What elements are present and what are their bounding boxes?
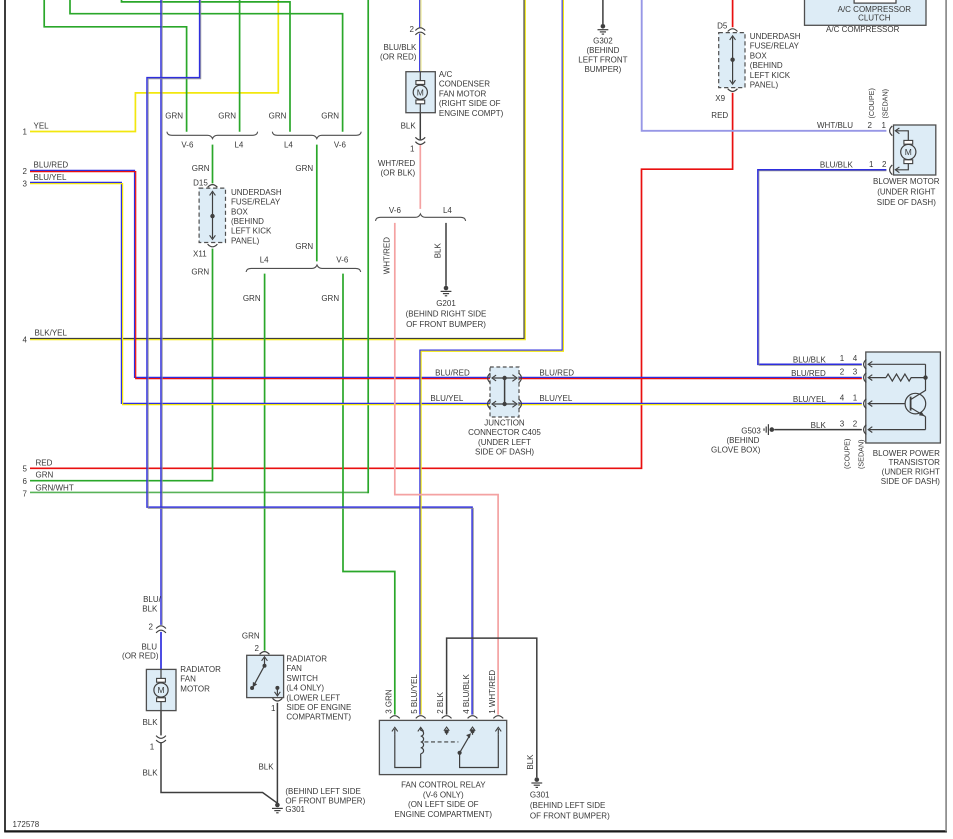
svg-text:V-6: V-6 <box>389 206 402 215</box>
svg-text:GRN: GRN <box>242 632 260 641</box>
wire BLU/BLK from top edge down to radiator fan motor connector 2 (blue band) <box>160 0 162 625</box>
junction connector C405 (dashed box) <box>490 367 519 417</box>
wire GRN top entry B to V-6 leg of second brace <box>70 0 343 132</box>
svg-text:(OR RED): (OR RED) <box>380 53 417 62</box>
blower power transistor Q1 (box) <box>866 352 941 443</box>
svg-text:GRN: GRN <box>269 111 287 120</box>
svg-text:JUNCTION: JUNCTION <box>484 418 525 427</box>
connector arc at terminal X11 <box>208 244 218 247</box>
svg-text:(SEDAN): (SEDAN) <box>881 89 890 119</box>
wire BLU/BLK from top edge down to radiator fan motor connector 2 (black band) <box>161 0 163 625</box>
svg-text:2: 2 <box>840 367 845 376</box>
svg-text:WHT/RED: WHT/RED <box>383 237 392 275</box>
svg-text:BLU/YEL: BLU/YEL <box>539 394 572 403</box>
wire BLU/RED circuit 2 (blue band): left edge to junction connector C405 to blower power transistor <box>30 170 862 377</box>
relay pin 4 arrow with node dot <box>472 730 474 735</box>
svg-text:UNDERDASH: UNDERDASH <box>231 188 282 197</box>
svg-text:GRN: GRN <box>165 111 183 120</box>
wire RED circuit 5: left edge, up at x=641, right to underdash fuse/relay box X9 <box>30 93 733 469</box>
svg-text:1: 1 <box>23 127 28 136</box>
svg-text:GRN: GRN <box>321 111 339 120</box>
svg-text:BLU/YEL: BLU/YEL <box>34 173 67 182</box>
connector arc left of C405 on BLU/RED <box>488 373 491 383</box>
wire BLU/BLK jog (black band) into fan control relay pin 4 <box>148 0 473 715</box>
svg-text:2: 2 <box>410 25 415 34</box>
svg-text:1: 1 <box>840 354 845 363</box>
transistor Q1 symbol (circle, base bar, collector, emitter with arrow) <box>905 393 926 414</box>
A/C condenser fan motor M1 (box with motor symbol) <box>406 72 435 113</box>
wire BLU/BLK from top edge jog left then down to y=507 (blue band) <box>147 0 472 715</box>
connector arc at switch pin 1 <box>273 698 283 701</box>
clutch coil symbol (partial, cut by page top) <box>854 0 896 3</box>
svg-text:(V-6 ONLY): (V-6 ONLY) <box>423 790 464 799</box>
svg-text:(BEHIND: (BEHIND <box>750 61 783 70</box>
node dot at resistor output <box>923 375 927 379</box>
wire BLK from A/C condenser fan motor down to connector 1 <box>419 113 421 140</box>
inline connector 1 below A/C condenser fan motor (arc pair) <box>415 137 425 140</box>
svg-text:LEFT FRONT: LEFT FRONT <box>578 56 627 65</box>
svg-text:GRN: GRN <box>321 294 339 303</box>
relay wire blade to pin 1 <box>460 735 499 768</box>
svg-text:BLU/: BLU/ <box>143 595 162 604</box>
svg-text:SIDE OF DASH): SIDE OF DASH) <box>881 477 940 486</box>
ground G302 <box>598 24 609 34</box>
transistor pin arrow BLU/RED 2/3 <box>868 375 872 381</box>
svg-text:(COUPE): (COUPE) <box>843 439 852 469</box>
svg-text:GRN: GRN <box>243 294 261 303</box>
wire BLK from connector 1 down then right then diagonal to ground G301 <box>161 743 277 803</box>
relay coil between pins 5 and 3 <box>421 730 424 753</box>
svg-text:3: 3 <box>23 180 28 189</box>
svg-text:BLK: BLK <box>142 718 158 727</box>
wire BLU (OR RED) from connector 2 into radiator fan motor <box>160 632 162 670</box>
wire GRN/WHT circuit 7 vertical run up to top edge <box>367 0 369 493</box>
wire BLU/YEL circuit 3 (yellow band) <box>30 184 862 405</box>
svg-text:BLU/YEL: BLU/YEL <box>430 394 463 403</box>
svg-text:ENGINE COMPT): ENGINE COMPT) <box>439 109 504 118</box>
underdash fuse/relay box D15-X11 (dashed box) <box>199 188 225 242</box>
svg-text:BLU/BLK: BLU/BLK <box>793 356 827 365</box>
relay pin 5 arrow <box>420 728 422 730</box>
svg-text:V-6: V-6 <box>336 256 349 265</box>
connector arc at blower pin 1 <box>890 126 893 136</box>
wire GRN from second brace centre down to lower splitting brace <box>316 145 318 262</box>
svg-text:BLK: BLK <box>433 243 442 259</box>
svg-text:BLOWER MOTOR: BLOWER MOTOR <box>873 177 940 186</box>
inline connector 1 below radiator fan motor (arc pair) <box>156 736 166 739</box>
svg-text:RED: RED <box>36 458 53 467</box>
connector arc right of C405 on BLU/YEL <box>519 399 522 409</box>
svg-text:LEFT KICK: LEFT KICK <box>231 227 272 236</box>
svg-text:A/C COMPRESSOR: A/C COMPRESSOR <box>826 25 900 34</box>
ground G301 right <box>531 777 542 787</box>
svg-text:2: 2 <box>867 121 872 130</box>
svg-text:BLU/YEL: BLU/YEL <box>793 395 826 404</box>
wire GRN/WHT circuit 7 horizontal run (green over white) <box>30 491 368 493</box>
svg-text:2: 2 <box>882 160 887 169</box>
wire BLK from radiator fan motor down to connector 1 <box>160 711 162 736</box>
svg-text:FUSE/RELAY: FUSE/RELAY <box>231 198 281 207</box>
svg-text:BLU/RED: BLU/RED <box>791 369 826 378</box>
radiator fan switch S1 (box) <box>247 655 284 697</box>
svg-text:D5: D5 <box>717 21 728 30</box>
svg-text:4: 4 <box>840 393 845 402</box>
connector arc at terminal D15 <box>208 185 218 188</box>
svg-text:(COUPE): (COUPE) <box>867 88 876 118</box>
svg-text:1: 1 <box>853 393 858 402</box>
svg-text:3: 3 <box>840 419 845 428</box>
junction internal link between dots <box>504 378 506 404</box>
svg-text:M: M <box>157 685 164 695</box>
wire GRN top entry A to V-6 leg of left brace <box>44 0 186 132</box>
connector arcs at relay pins <box>390 716 400 719</box>
svg-text:4: 4 <box>23 335 28 344</box>
inline connector 2 above radiator fan motor (arc pair) <box>156 626 166 629</box>
svg-text:GRN/WHT: GRN/WHT <box>36 483 74 492</box>
svg-text:3: 3 <box>853 367 858 376</box>
svg-text:GRN: GRN <box>36 471 54 480</box>
svg-text:A/C: A/C <box>439 70 453 79</box>
relay pin 1 arrow <box>497 729 499 735</box>
wire BLU/BLK (OR RED) from top edge to connector 2 above A/C condenser fan motor (blue band) <box>419 0 421 28</box>
underdash fuse/relay box D5-X9 (dashed box) <box>719 33 745 88</box>
transistor pin arrow BLU/BLK 1/4 <box>868 361 872 367</box>
svg-text:L4: L4 <box>260 256 269 265</box>
svg-text:CONDENSER: CONDENSER <box>439 80 490 89</box>
svg-text:BLK/YEL: BLK/YEL <box>35 329 68 338</box>
fuse element inside D5 box (line with arrows and node dot) <box>732 37 734 83</box>
ground G301 left <box>272 803 283 813</box>
inline connector 2 above A/C condenser fan motor (arc pair) <box>415 28 425 31</box>
wire WHT/BLU from top edge down then right to blower motor pin 1 <box>642 0 887 131</box>
resistor R1 inside transistor box <box>886 374 926 381</box>
svg-text:(OR BLK): (OR BLK) <box>381 169 416 178</box>
svg-text:2 BLK: 2 BLK <box>436 691 445 713</box>
wire BLK/YEL circuit 4 (yellow band) <box>30 0 525 340</box>
svg-text:FAN CONTROL RELAY: FAN CONTROL RELAY <box>401 781 486 790</box>
svg-text:(L4 ONLY): (L4 ONLY) <box>286 684 324 693</box>
svg-text:SIDE OF DASH): SIDE OF DASH) <box>877 198 936 207</box>
svg-text:2: 2 <box>255 644 260 653</box>
svg-text:FAN: FAN <box>180 675 196 684</box>
svg-text:6: 6 <box>23 477 28 486</box>
svg-text:SIDE OF DASH): SIDE OF DASH) <box>475 448 534 457</box>
svg-text:GLOVE BOX): GLOVE BOX) <box>711 445 761 454</box>
wire BLU/BLK (OR RED) top (pale band) <box>420 0 422 28</box>
svg-text:2: 2 <box>23 167 28 176</box>
svg-text:PANEL): PANEL) <box>750 81 779 90</box>
svg-text:1: 1 <box>869 160 874 169</box>
wire BLU/YEL to relay pin 5 (yellow band) <box>421 0 563 715</box>
svg-text:GRN: GRN <box>295 164 313 173</box>
wire GRN circuit 6: left edge right to X11 output of underdash fuse/relay box <box>30 249 213 481</box>
svg-text:UNDERDASH: UNDERDASH <box>750 32 801 41</box>
junction double arrow on BLU/YEL line with node dot <box>494 403 516 405</box>
svg-text:SIDE OF ENGINE: SIDE OF ENGINE <box>286 703 351 712</box>
svg-text:2: 2 <box>853 419 858 428</box>
brace splitting GRN into L4 and V-6 drops <box>246 265 361 272</box>
svg-text:LEFT KICK: LEFT KICK <box>750 71 791 80</box>
svg-text:OF FRONT BUMPER): OF FRONT BUMPER) <box>530 811 610 820</box>
svg-text:172578: 172578 <box>13 820 40 829</box>
svg-text:BUMPER): BUMPER) <box>584 65 621 74</box>
svg-text:BOX: BOX <box>750 51 768 60</box>
svg-text:(UNDER RIGHT: (UNDER RIGHT <box>877 188 935 197</box>
wire BLK from radiator fan switch pin 1 down to ground G301 <box>276 703 278 803</box>
brace V-6/L4 splitting WHT/RED into engine variants <box>376 214 466 221</box>
svg-text:COMPARTMENT): COMPARTMENT) <box>286 713 351 722</box>
svg-text:1: 1 <box>271 704 276 713</box>
connector arc at terminal D5 <box>728 29 738 32</box>
svg-text:BLU/BLK: BLU/BLK <box>383 43 417 52</box>
wire GRN top entry D to L4 leg of left brace <box>239 0 241 132</box>
relay mechanical link (dashed) <box>424 741 458 743</box>
wire GRN top entry C to L4 leg of second brace <box>122 0 291 132</box>
svg-text:BLU/RED: BLU/RED <box>34 161 69 170</box>
svg-text:G503: G503 <box>741 426 761 435</box>
svg-text:FUSE/RELAY: FUSE/RELAY <box>750 42 800 51</box>
svg-text:BLK: BLK <box>142 769 158 778</box>
svg-text:4 BLU/BLK: 4 BLU/BLK <box>462 674 471 714</box>
svg-text:(BEHIND: (BEHIND <box>231 217 264 226</box>
svg-text:V-6: V-6 <box>334 141 347 150</box>
wire BLU/BLK from blower motor pin 2 left then down then right to blower power transistor pins 1/4 (blue band) <box>758 170 887 364</box>
wire BLU/YEL from top edge down, left at y=351, down to fan control relay pin 5 (blue band) <box>420 0 562 715</box>
svg-text:RADIATOR: RADIATOR <box>286 655 327 664</box>
wire BLK from fan control relay pin 2 up, right, down to ground G301 <box>447 638 537 777</box>
svg-text:BLK: BLK <box>811 421 827 430</box>
svg-text:BLK: BLK <box>401 121 417 130</box>
svg-text:(SEDAN): (SEDAN) <box>857 439 866 469</box>
svg-text:(ON LEFT SIDE OF: (ON LEFT SIDE OF <box>408 800 479 809</box>
svg-text:OF FRONT BUMPER): OF FRONT BUMPER) <box>406 320 486 329</box>
ground G201 <box>441 286 452 296</box>
svg-text:FAN MOTOR: FAN MOTOR <box>439 89 487 98</box>
transistor pin arrow BLU/YEL 4/1 (base) <box>868 401 872 407</box>
wire BLK from top edge down to ground G302 <box>602 0 604 24</box>
svg-text:BLK: BLK <box>258 762 274 771</box>
svg-text:(BEHIND LEFT SIDE: (BEHIND LEFT SIDE <box>530 801 605 810</box>
wire GRN V-6 leg of lower brace down and right to fan control relay pin 3 <box>343 274 395 715</box>
svg-text:RADIATOR: RADIATOR <box>180 665 221 674</box>
fan control relay K1 (box) <box>379 720 506 774</box>
wire WHT/RED (OR BLK) from connector 1 down to V-6/L4 brace <box>419 145 421 209</box>
svg-text:L4: L4 <box>284 141 293 150</box>
brace L4/V-6 joining second pair of GRN wires <box>272 132 361 139</box>
connector arc at blower pin 2 <box>890 165 893 175</box>
transistor collector feed line <box>925 364 927 377</box>
relay pin 2 arrow with node dot <box>446 730 448 735</box>
transistor pin arrow BLK 3/2 (emitter return) <box>868 427 872 433</box>
svg-text:(UNDER LEFT: (UNDER LEFT <box>478 438 531 447</box>
svg-text:YEL: YEL <box>34 121 50 130</box>
wire BLK L4 leg down to ground G201 <box>445 223 447 286</box>
svg-text:TRANSISTOR: TRANSISTOR <box>888 458 940 467</box>
svg-text:(OR RED): (OR RED) <box>122 651 159 660</box>
wire BLU/RED circuit 2 (red band) <box>30 172 862 379</box>
svg-text:BLOWER POWER: BLOWER POWER <box>873 449 940 458</box>
svg-text:X9: X9 <box>715 94 725 103</box>
wire YEL circuit 1: top entry x=278 down, left, down to left-edge label 1 <box>30 0 278 132</box>
wire RED stub above underdash fuse/relay box D5 to top edge <box>732 0 734 27</box>
svg-text:1: 1 <box>150 743 155 752</box>
A/C compressor clutch box <box>805 0 927 25</box>
svg-text:1: 1 <box>410 145 415 154</box>
svg-text:CLUTCH: CLUTCH <box>858 13 891 22</box>
connector arc at switch pin 2 <box>260 652 270 655</box>
svg-text:RED: RED <box>711 111 728 120</box>
svg-text:WHT/RED: WHT/RED <box>378 159 416 168</box>
svg-text:BOX: BOX <box>231 207 249 216</box>
svg-text:(BEHIND: (BEHIND <box>727 436 760 445</box>
svg-text:MOTOR: MOTOR <box>180 684 210 693</box>
svg-text:L4: L4 <box>234 141 243 150</box>
wire BLU/BLK blower-transistor (black band) <box>759 171 886 366</box>
wire GRN L4 leg of lower brace down to radiator fan switch pin 2 <box>264 274 266 651</box>
svg-text:SWITCH: SWITCH <box>286 674 318 683</box>
wire BLU/BLK (OR RED) from connector 2 into A/C condenser fan motor (blue band) <box>419 34 421 72</box>
svg-text:4: 4 <box>853 354 858 363</box>
svg-text:WHT/BLU: WHT/BLU <box>817 121 853 130</box>
svg-text:5 BLU/YEL: 5 BLU/YEL <box>410 674 419 714</box>
junction double arrow on BLU/RED line with node dot <box>494 377 516 379</box>
svg-text:(LOWER LEFT: (LOWER LEFT <box>286 693 340 702</box>
connector arc right of C405 on BLU/RED <box>519 373 522 383</box>
svg-text:BLU/BLK: BLU/BLK <box>820 160 854 169</box>
wire GRN from left brace centre down to fuse box terminal D15 <box>212 145 214 184</box>
svg-text:V-6: V-6 <box>181 141 194 150</box>
relay pin 3 arrow <box>394 729 396 735</box>
svg-text:(BEHIND LEFT SIDE: (BEHIND LEFT SIDE <box>285 787 360 796</box>
svg-text:G302: G302 <box>593 36 613 45</box>
relay wire pin3 to coil bottom <box>395 735 421 768</box>
svg-text:GRN: GRN <box>218 111 236 120</box>
radiator fan motor M3 (box with motor symbol) <box>146 669 176 710</box>
svg-text:1 WHT/RED: 1 WHT/RED <box>488 670 497 714</box>
svg-text:G301: G301 <box>285 805 305 814</box>
ground G503 (sideways) <box>764 424 774 435</box>
svg-text:X11: X11 <box>193 250 207 259</box>
svg-text:3 GRN: 3 GRN <box>384 689 393 714</box>
svg-text:5: 5 <box>23 464 28 473</box>
svg-text:(RIGHT SIDE OF: (RIGHT SIDE OF <box>439 99 501 108</box>
page border bottom <box>4 830 947 832</box>
svg-text:(UNDER RIGHT: (UNDER RIGHT <box>882 468 940 477</box>
connector arc at terminal X9 <box>728 89 738 92</box>
wire BLU/BLK (OR RED) lower (pale band) <box>420 34 422 72</box>
svg-text:L4: L4 <box>443 206 452 215</box>
blower motor M2 (box with motor symbol) <box>894 125 936 175</box>
wire BLK/YEL circuit 4 (black band): left edge right then up to top edge <box>30 0 524 339</box>
svg-text:PANEL): PANEL) <box>231 236 260 245</box>
page border right <box>945 0 947 831</box>
svg-text:7: 7 <box>23 490 28 499</box>
svg-text:GRN: GRN <box>191 268 209 277</box>
svg-text:GRN: GRN <box>295 242 313 251</box>
svg-text:(BEHIND RIGHT SIDE: (BEHIND RIGHT SIDE <box>406 309 487 318</box>
svg-text:BLU/RED: BLU/RED <box>539 368 574 377</box>
svg-text:CONNECTOR C405: CONNECTOR C405 <box>468 428 541 437</box>
svg-text:G301: G301 <box>530 791 550 800</box>
svg-text:BLK: BLK <box>142 605 158 614</box>
connector arcs at transistor pins <box>864 359 867 369</box>
svg-text:BLU: BLU <box>141 642 157 651</box>
connector arc left of C405 on BLU/YEL <box>488 399 491 409</box>
svg-text:ENGINE COMPARTMENT): ENGINE COMPARTMENT) <box>395 810 493 819</box>
wire WHT/RED V-6 leg down then right then down to fan control relay pin 1 <box>395 223 498 715</box>
fuse element inside D15 box (line with arrows and node dot) <box>212 193 214 239</box>
svg-text:BLU/RED: BLU/RED <box>435 368 470 377</box>
svg-text:M: M <box>417 87 424 97</box>
wire BLK from ground G503 right to blower power transistor pins 3/2 <box>774 429 862 431</box>
svg-text:1: 1 <box>881 121 886 130</box>
svg-text:D15: D15 <box>193 178 208 187</box>
relay switch blade with arrow <box>458 751 462 755</box>
brace V-6/L4 joining left pair of GRN wires <box>167 132 258 139</box>
svg-text:(BEHIND: (BEHIND <box>586 46 619 55</box>
svg-text:BLK: BLK <box>526 754 535 770</box>
wire BLU/YEL circuit 3 (blue band): left edge to junction connector C405 to blower power transistor <box>30 182 862 403</box>
svg-text:GRN: GRN <box>192 164 210 173</box>
svg-text:G201: G201 <box>436 299 456 308</box>
switch symbol inside (pin 2 arrow, contact dots, open blade with arrow, pin 1 arrow) <box>264 658 266 666</box>
page border left <box>4 0 6 831</box>
svg-text:FAN: FAN <box>286 664 302 673</box>
svg-text:2: 2 <box>149 622 154 631</box>
svg-text:M: M <box>905 147 912 157</box>
